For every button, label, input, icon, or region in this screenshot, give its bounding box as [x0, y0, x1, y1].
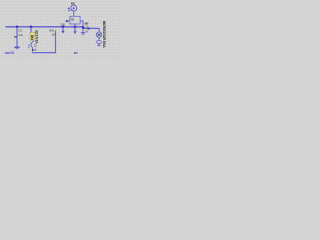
ground symbol GND2 drop at x83 [82, 28, 84, 32]
node small dot below battery [32, 50, 34, 52]
ground symbol GND2 bars [81, 32, 85, 34]
connector J1 plus mark left [68, 7, 70, 9]
wire diagonal second segment [28, 45, 30, 49]
wire diagonal below battery [31, 41, 34, 50]
node junction J-D at x75 [74, 26, 77, 29]
wire bus step down to right net segment [83, 27, 99, 29]
connector J1 inner mark [73, 7, 75, 9]
wire bottom return path L-shape [32, 30, 56, 52]
power port arrow symbol P2 at x75 [74, 27, 76, 32]
svg-text:0.4u: 0.4u [18, 33, 23, 37]
battery B1 inner mark [31, 35, 33, 38]
power port arrow symbol P1 at x63 [62, 27, 64, 31]
buzzer LS1 inner cross [97, 33, 100, 36]
regulator U1 left pin endpoint [66, 20, 68, 22]
svg-text:MICROSD BZR 3V1A: MICROSD BZR 3V1A [102, 21, 106, 49]
ground symbol GND1 bar [14, 46, 19, 48]
regulator U1 output pin wire to bus [80, 21, 83, 27]
node junction J-F at x88.5 [88, 27, 90, 29]
regulator U1 left pin stub [67, 20, 70, 22]
wire battery B1 branch vertical [30, 27, 32, 35]
regulator U1 box [70, 16, 80, 24]
svg-text:0V: 0V [85, 30, 88, 34]
wire J1 to regulator U1 [73, 11, 75, 16]
buzzer LS1 top circle [96, 32, 101, 37]
svg-text:M1: M1 [71, 1, 75, 5]
terminal end tick [98, 44, 101, 46]
svg-text:B1 3.7V 1A: B1 3.7V 1A [35, 30, 39, 44]
node junction J-E at x83 [82, 26, 85, 29]
capacitor C1 plate mark [14, 36, 17, 37]
svg-text:RE: RE [71, 18, 75, 22]
buzzer rotated designator column [102, 21, 106, 49]
small ground text mark bottom middle [74, 52, 75, 54]
wire between buzzer circles [98, 37, 100, 40]
svg-text:3.3V: 3.3V [60, 23, 65, 27]
connector circle J1 top [71, 5, 77, 11]
node junction J-C at x63 [62, 26, 65, 29]
svg-text:class 5/5: class 5/5 [5, 51, 15, 55]
regulator U1 bottom pin wire to bus [74, 24, 76, 27]
svg-text:1A: 1A [52, 33, 55, 37]
battery B1 rotated designator text [35, 30, 39, 44]
node junction J-A at x17 [16, 26, 19, 29]
wire right branch down to buzzer [98, 28, 100, 32]
ground symbol GND1 tip [16, 48, 19, 50]
wire buzzer bottom terminal [98, 44, 100, 46]
wire capacitor C1 branch vertical [16, 27, 18, 47]
buzzer LS1 lower ellipse [97, 40, 102, 43]
wire main power bus net VCC [6, 26, 84, 28]
node junction J-B at x31 [30, 26, 33, 29]
pin stub at junction J-F [88, 27, 90, 29]
battery B1 yellow body [30, 32, 35, 40]
